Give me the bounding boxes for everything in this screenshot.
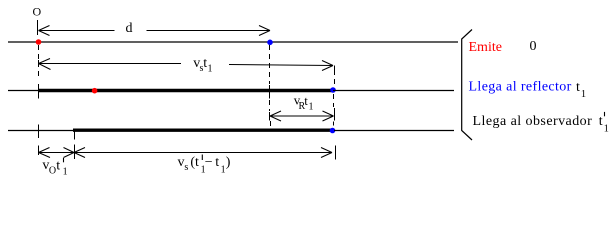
- prime mark of t'_1 (observador): [604, 112, 606, 116]
- tick at left end of v_s t_1 arrow: [38, 60, 40, 67]
- timeline 1 (wire): [8, 41, 458, 43]
- dashed guide x=270 below v_R arrow to timeline 3: [270, 121, 272, 130]
- prime mark of t' in v_s(t'_1 - t_1): [201, 155, 203, 161]
- arrow d: [39, 26, 271, 36]
- tick below O at source position: [37, 20, 39, 35]
- svg-text:t1: t1: [599, 114, 609, 135]
- dashed guide at x=270: [269, 45, 271, 84]
- svg-text:Emite: Emite: [469, 40, 502, 55]
- prime mark of t' in v_O t'_1: [63, 158, 65, 162]
- timeline 3 thin left segment (wire): [8, 130, 74, 132]
- dashed guide x=334 from timeline 2 to timeline 3: [333, 94, 335, 107]
- reflector dot (blue) on timeline 2: [330, 87, 336, 93]
- dash below v_s t_1 left tick: [38, 71, 40, 76]
- tick below right end of v_s t_1 arrow / dashed guide x=334: [334, 79, 336, 88]
- tick on timeline 2 at x=38.5: [38, 84, 40, 99]
- tick at left end of v_R t_1 arrow: [269, 112, 271, 121]
- svg-text:Llega al reflector: Llega al reflector: [469, 80, 572, 95]
- timeline 3 thin right segment (wire): [334, 130, 454, 132]
- svg-text:d: d: [126, 21, 133, 36]
- svg-text:O: O: [33, 5, 42, 19]
- reflector dot (blue) on timeline 1: [267, 40, 273, 46]
- tick crossing timeline 2 at x=269: [269, 85, 271, 99]
- source dot (red) on timeline 1: [36, 39, 42, 45]
- dashed guide below source dot: [38, 45, 40, 59]
- arrow v_O t'_1: [39, 148, 75, 158]
- arrow v_R t_1: [270, 111, 334, 121]
- svg-text:vst1: vst1: [193, 56, 212, 74]
- timeline 2 thin left segment (wire): [8, 90, 40, 92]
- tick at x=74 crossing bottom arrows: [74, 145, 76, 160]
- timeline 3 thick segment (wave travel): [73, 128, 334, 131]
- svg-text:t1: t1: [576, 80, 586, 100]
- svg-text:vs(t1−t1): vs(t1−t1): [178, 155, 231, 176]
- tick on timeline 3 at x=38.5: [38, 125, 40, 139]
- arrow v_s t_1: [39, 59, 334, 71]
- dashed guide x=334 below v_R arrow: [333, 122, 335, 128]
- timeline 2 thin right segment (wire): [333, 90, 454, 92]
- source dot (red) on timeline 2: [92, 88, 98, 94]
- tick at right end of v_R t_1 arrow: [334, 108, 336, 121]
- tick at left end of v_O t'_1 arrow: [38, 146, 40, 156]
- timeline 2 thick segment (wave travel): [39, 89, 333, 93]
- svg-text:vRt1: vRt1: [294, 93, 314, 113]
- arrow v_s(t'_1 - t_1): [74, 148, 332, 158]
- tick at right end of v_s t_1 arrow: [334, 66, 336, 76]
- dashed guide x=270 below timeline 2: [269, 100, 271, 111]
- tick at right end of bottom arrow: [335, 146, 337, 160]
- svg-text:Llega al observador: Llega al observador: [473, 114, 593, 129]
- tick below start of thick segment at x=74: [74, 132, 76, 140]
- brace (right bracket): [462, 30, 472, 141]
- observer dot (blue) on timeline 3: [330, 128, 336, 134]
- svg-text:0: 0: [530, 39, 537, 54]
